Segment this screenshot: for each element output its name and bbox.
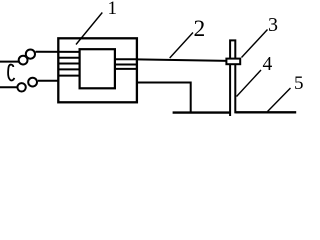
terminal circle top-right <box>26 50 35 59</box>
label 4 <box>263 55 273 75</box>
transformer outer box 1 <box>58 38 137 102</box>
leader line 3 <box>242 30 268 58</box>
clamp block 3 <box>226 59 240 65</box>
terminal circle bottom-right <box>28 78 37 87</box>
stand rod 4 <box>230 40 235 116</box>
base plate 5 left segment <box>173 111 230 113</box>
leader line 5 <box>268 88 291 112</box>
wire bottom-left input <box>0 86 17 88</box>
iron core inner box <box>80 49 115 88</box>
leader line 4 <box>237 70 262 97</box>
wire lower lead and support pillar <box>137 83 191 113</box>
leader line 2 <box>170 33 193 59</box>
wire from terminals to primary coil <box>36 51 80 53</box>
wire from terminals to primary side <box>38 80 59 82</box>
switch hook curl <box>8 65 14 81</box>
wire 2 long lead to stand clamp <box>137 59 228 61</box>
label 5 <box>294 74 304 93</box>
terminal circle bottom-left <box>17 83 25 91</box>
leader line 1 <box>76 13 102 45</box>
primary coil lines <box>59 57 80 59</box>
wire top-left input <box>0 61 19 63</box>
label 1 <box>108 0 118 18</box>
base plate 5 right segment <box>236 111 297 113</box>
label 2 <box>194 18 206 42</box>
secondary coil lines <box>114 58 137 60</box>
terminal circle top-left <box>19 56 28 65</box>
label 3 <box>268 15 278 35</box>
